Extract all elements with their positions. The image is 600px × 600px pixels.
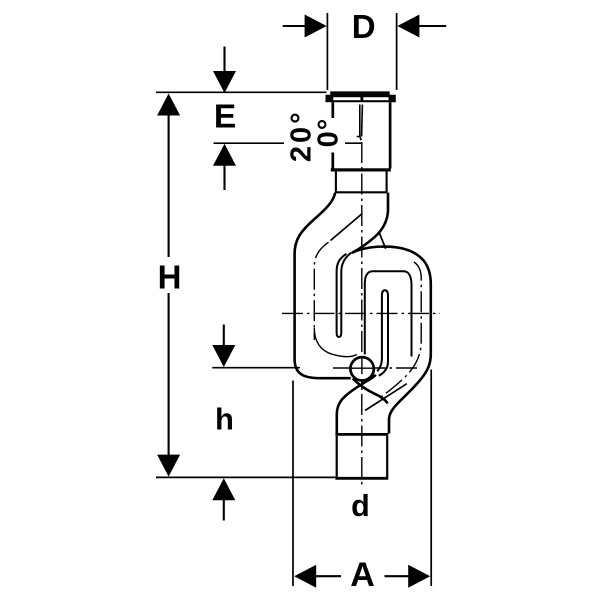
svg-text:0°: 0° — [313, 118, 345, 148]
svg-text:D: D — [352, 8, 376, 45]
svg-text:d: d — [351, 489, 370, 523]
svg-text:H: H — [158, 258, 182, 295]
svg-text:A: A — [350, 556, 375, 594]
svg-text:h: h — [215, 402, 234, 437]
svg-text:E: E — [214, 98, 236, 135]
